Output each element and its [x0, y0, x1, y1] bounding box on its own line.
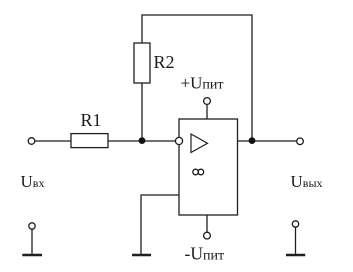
svg-text:R2: R2	[154, 52, 175, 72]
svg-text:R1: R1	[81, 110, 102, 130]
